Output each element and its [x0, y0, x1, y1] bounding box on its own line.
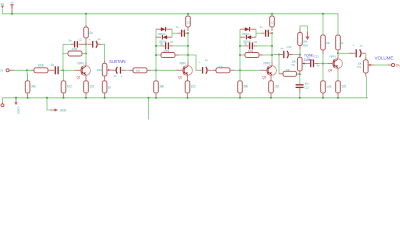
pin D3 anode [240, 28, 245, 30]
svg-text:4n: 4n [281, 46, 284, 50]
pin R5 top [85, 25, 87, 27]
svg-text:12k: 12k [339, 41, 344, 45]
pin R15 right [259, 54, 263, 56]
resistor R17 Q3 emitter [269, 81, 274, 93]
resistor R12 Q2 emitter [185, 81, 190, 93]
wire input to R1 [14, 69, 32, 71]
pin R18 left [279, 73, 283, 75]
wire stage3 bottom res left [240, 54, 245, 56]
pin C3 right [97, 43, 101, 45]
potentiometer P1 SUSTAIN [102, 63, 107, 76]
pin C10 right [288, 54, 293, 56]
pin C13 right [361, 52, 366, 54]
pin D1 cathode [167, 28, 173, 30]
wire stage3 mid cap left [240, 45, 245, 47]
svg-text:C10: C10 [287, 45, 292, 49]
wire diode loop to C8 [256, 32, 262, 34]
wire Q3 collector to tone node [272, 54, 279, 56]
junction R11 on +9V rail [187, 13, 189, 15]
junction R21 on GND rail [322, 97, 324, 99]
svg-text:C11: C11 [304, 86, 309, 90]
pin P2 bottom [299, 71, 301, 74]
pin Q1 base [75, 69, 83, 71]
wire stage3 left vertical [239, 29, 241, 70]
svg-text:100k: 100k [97, 68, 103, 72]
capacitor C12 wiper coupling [310, 60, 312, 67]
junction R23 on GND rail [337, 97, 339, 99]
svg-text:1k: 1k [108, 85, 112, 89]
diode D1 [161, 27, 166, 31]
svg-text:1N914: 1N914 [242, 32, 250, 36]
svg-text:SUSTAIN: SUSTAIN [109, 59, 125, 64]
svg-text:39k: 39k [31, 85, 36, 89]
supply GND symbol SGND [14, 98, 17, 105]
junction Q3 base node [239, 69, 241, 71]
capacitor C8 clip series [265, 30, 267, 37]
wire bias node down to R2 [26, 70, 29, 80]
wire Q4 emitter to R23 [337, 71, 339, 81]
wire feedback bottom right stub [82, 53, 86, 55]
wire stage2 left vertical [155, 29, 157, 70]
pin R18 right [297, 73, 300, 75]
pin Q1 emitter [85, 75, 87, 81]
svg-text:+9: +9 [10, 1, 14, 5]
pin D2 cathode [156, 36, 161, 38]
potentiometer P3 VOLUME [364, 60, 369, 73]
junction stage3 mid left [239, 45, 241, 47]
junction stage2 bottom left [155, 54, 157, 56]
potentiometer P2 TONE [298, 57, 303, 71]
resistor R22 Q4 collector load [336, 35, 341, 50]
pin R3 bottom [63, 93, 65, 98]
resistor R8 Q2 series base [133, 68, 147, 73]
pin C5 right [185, 32, 188, 34]
wire stage2 right vertical [187, 33, 189, 61]
resistor R20 Q4 upper bias [321, 35, 326, 50]
svg-text:102: 102 [274, 84, 279, 88]
svg-text:12k: 12k [88, 31, 93, 35]
resistor R10 feedback [161, 53, 175, 58]
junction stage2 mid left [155, 45, 157, 47]
pin R23 bottom [337, 93, 339, 98]
svg-text:9V: 9V [1, 2, 4, 6]
pin Q4 collector [337, 53, 339, 58]
wire rail to R11 [187, 14, 189, 16]
wire long GND drop mid [148, 98, 150, 120]
pin Q3 collector [271, 62, 273, 66]
pin D3 cathode [251, 28, 257, 30]
pin R13 right [230, 69, 234, 71]
wire stage2 mid cap right [173, 45, 188, 47]
pin R19 top [299, 29, 301, 33]
pin R2 bottom [27, 93, 29, 98]
pin R21 bottom [322, 93, 324, 98]
pin C7 left [199, 69, 202, 71]
junction SGND on rail [15, 97, 17, 99]
resistor R18 tone lowpass [283, 71, 297, 76]
diode D3 [245, 27, 250, 31]
pin P1 wiper [109, 69, 112, 71]
svg-text:102: 102 [67, 85, 72, 89]
wire rail to R16 [271, 14, 273, 16]
wire base node to R9 [155, 70, 157, 81]
pin SUSTAIN pot top [104, 60, 106, 63]
junction R12 on GND rail [186, 97, 188, 99]
capacitor C1 input coupling [54, 66, 56, 74]
svg-text:10k: 10k [218, 65, 223, 69]
svg-text:+: + [89, 38, 91, 42]
pin C12 right [315, 63, 319, 65]
supply +9V symbol P+2 [10, 5, 13, 14]
svg-text:C12: C12 [314, 55, 319, 59]
junction Q4 base node [322, 62, 324, 64]
svg-text:1u: 1u [51, 63, 55, 67]
capacitor C7 coupling polarized [202, 67, 204, 74]
junction R20 on +9V rail [322, 13, 324, 15]
svg-text:+: + [199, 60, 201, 64]
resistor R19 tone shunt [298, 33, 303, 46]
transistor Q1 [81, 66, 91, 76]
svg-text:4u: 4u [317, 64, 320, 68]
pin D1 anode [156, 28, 161, 30]
wire C12 to Q4 base node [319, 63, 328, 65]
wire R20 to Q4 base node [322, 54, 324, 64]
svg-text:39k: 39k [159, 84, 164, 88]
pin R8 right [147, 69, 151, 71]
wire C7 to R13 [211, 69, 216, 71]
svg-text:NPN: NPN [330, 55, 336, 59]
pin C6 right [169, 45, 173, 47]
svg-text:100k: 100k [326, 84, 332, 88]
svg-text:C6: C6 [170, 40, 174, 44]
svg-text:470k: 470k [248, 49, 254, 53]
capacitor C3 coupling polarized [92, 41, 94, 48]
svg-text:R19: R19 [303, 43, 308, 47]
wire stage3 right vertical [271, 33, 273, 61]
junction Q4 collector node [337, 52, 339, 54]
junction tone bottom node [299, 73, 301, 75]
pin R17 bottom [270, 93, 272, 98]
capacitor C2 feedback [74, 41, 76, 47]
pin R8 left [130, 69, 134, 71]
pin R19 bottom [299, 46, 301, 50]
wire wiper to output [374, 64, 389, 66]
wire feedback top left [63, 43, 71, 45]
pin R6 bottom [85, 93, 87, 98]
junction R7 on GND rail [104, 97, 106, 99]
svg-text:OUT: OUT [396, 64, 400, 68]
svg-text:NPN: NPN [264, 61, 271, 65]
resistor R3 Q1 base bias [61, 81, 66, 93]
pin GND arrow [50, 109, 55, 111]
pin C9 right [253, 45, 257, 47]
wiper arrow P3 [368, 64, 370, 66]
wire rail to R5 [85, 14, 87, 25]
pin D4 cathode [240, 36, 245, 38]
wire tone split down [278, 55, 280, 74]
junction input bias node [26, 69, 28, 71]
resistor R7 pot lower [102, 81, 107, 93]
wire C10 to tone top node [293, 54, 300, 56]
pin output [388, 64, 391, 66]
junction R3 on GND rail [62, 97, 64, 99]
wire tone bottom down [299, 74, 301, 84]
pin P2 top [299, 55, 301, 58]
junction R6 on GND rail [85, 97, 87, 99]
pin R20 bottom [322, 50, 324, 54]
wire stage2 diode loop right vertical [171, 29, 173, 37]
wire collector node to C13 [338, 52, 349, 54]
resistor R9 Q2 base bias [154, 81, 159, 93]
wire stage2 bottom res left [156, 54, 161, 56]
svg-text:1u: 1u [205, 58, 208, 62]
resistor R23 Q4 emitter [336, 81, 341, 93]
wire +9V rail left stub up [2, 9, 4, 15]
pin P3 wiper [371, 64, 374, 66]
wire R8 to Q2 base node [151, 69, 176, 71]
pin Q2 base [176, 69, 184, 71]
ground arrow symbol [55, 108, 59, 111]
wire feedback bottom left stub [63, 53, 68, 55]
pin C2 left [71, 43, 74, 45]
svg-text:Q3: Q3 [262, 75, 266, 79]
svg-text:470k: 470k [72, 47, 78, 51]
svg-text:1u: 1u [97, 37, 100, 41]
wire rail corner to R22 [337, 13, 339, 35]
pin C8 right [269, 32, 272, 34]
pin C13 left [349, 52, 355, 54]
junction C11 on GND rail [299, 97, 301, 99]
resistor R16 collector load [270, 16, 275, 27]
pin Q3 base [261, 69, 269, 71]
pin Q1 collector [85, 62, 87, 66]
junction R2 on GND rail [27, 97, 29, 99]
wiper arrow P2 [302, 63, 304, 65]
svg-text:12k: 12k [271, 20, 276, 24]
pin GND reference [2, 102, 4, 104]
port input pad circle [6, 69, 9, 72]
svg-text:12k: 12k [187, 20, 192, 24]
pin R11 bottom [187, 27, 189, 31]
wire Q4 base node down to R21 [322, 64, 324, 81]
resistor R4 feedback [68, 51, 82, 56]
svg-text:+: + [353, 43, 355, 47]
pin C8 left [262, 32, 265, 34]
pin R14 bottom [239, 93, 241, 98]
resistor R6 Q1 emitter [84, 81, 89, 93]
diode D4 [246, 35, 251, 39]
svg-text:IN: IN [0, 69, 3, 73]
ground arrow symbol tone [306, 37, 310, 41]
wire Q2 collector jog to C7 [188, 55, 199, 70]
wire stage3 diode loop right vertical [255, 29, 257, 37]
pin R13 left [213, 69, 217, 71]
junction Q2 base node [155, 69, 157, 71]
resistor R21 Q4 lower bias [321, 81, 326, 93]
capacitor C11 tone to ground [296, 84, 304, 86]
svg-text:NPN: NPN [180, 61, 187, 65]
capacitor C6 feedback [165, 42, 167, 49]
junction R9 on GND rail [155, 97, 157, 99]
wire diode loop to C5 [172, 32, 178, 34]
pin C10 left [279, 54, 283, 56]
wire C13 corner to P3 [365, 53, 367, 57]
wire stage3 mid cap right [257, 45, 272, 47]
junction R5 on +9V rail [85, 13, 87, 15]
pin C2 right [79, 43, 86, 45]
port output pad circle [391, 63, 394, 66]
svg-text:1u: 1u [176, 25, 179, 29]
wire C4 to R8 [126, 69, 130, 71]
svg-text:10k: 10k [136, 68, 141, 72]
resistor R13 Q3 series base [216, 68, 230, 73]
pin C6 left [161, 45, 165, 47]
wire C1 to base node [60, 69, 75, 71]
svg-text:GND1: GND1 [16, 107, 20, 115]
capacitor C13 output polarized [355, 49, 357, 57]
junction Q1 collector node [85, 43, 87, 45]
svg-text:Q2: Q2 [178, 75, 182, 79]
svg-text:1N914: 1N914 [158, 32, 166, 36]
pin D4 anode [251, 36, 256, 38]
wire collector down to Q1 [85, 54, 87, 62]
svg-text:470k: 470k [324, 41, 330, 45]
junction tone split [278, 53, 280, 55]
junction stage2 mid right [187, 45, 189, 47]
svg-text:2u: 2u [113, 74, 116, 78]
transistor Q3 [267, 66, 277, 76]
svg-text:P3: P3 [357, 65, 361, 69]
pin Q4 emitter [337, 68, 339, 70]
svg-text:Q4: Q4 [328, 69, 332, 73]
pin C4 right [122, 69, 126, 71]
wire top +9V rail [3, 13, 339, 15]
wire C11 to GND rail [299, 93, 301, 98]
junction tone top node [299, 53, 301, 55]
junction R17 on GND rail [270, 97, 272, 99]
wire GND rail left drop [2, 98, 4, 103]
transistor Q2 [183, 66, 193, 76]
pin C3 left [88, 43, 92, 45]
wire stage2 bottom res right [179, 54, 188, 56]
diode D2 [162, 35, 167, 39]
svg-text:C6: C6 [254, 40, 258, 44]
svg-text:P2: P2 [292, 63, 296, 67]
pin input [9, 69, 13, 71]
wire R19 to tone top node [299, 50, 301, 55]
pin Q2 emitter [187, 75, 189, 81]
svg-text:102: 102 [89, 85, 94, 89]
wire base node down to R3 [63, 70, 65, 81]
wire feedback right vertical [85, 44, 87, 53]
resistor R5 Q1 collector load [84, 27, 89, 38]
junction stage3 mid right [271, 45, 273, 47]
junction GND stub [46, 97, 48, 99]
capacitor C5 clip series [181, 30, 183, 37]
capacitor C4 polarized [116, 67, 117, 74]
svg-text:470k: 470k [164, 49, 170, 53]
wire wiper to C4 [113, 69, 117, 71]
pin R9 bottom [155, 93, 157, 98]
svg-text:102: 102 [191, 84, 196, 88]
wire GND stub to arrow [47, 98, 50, 110]
junction feedback box bottom right [85, 52, 87, 54]
junction Q1 base node [62, 69, 64, 71]
wire stage3 bottom res right [263, 54, 272, 56]
junction R14 on GND rail [239, 97, 241, 99]
pin R5 bottom [85, 38, 87, 44]
svg-text:5p: 5p [69, 39, 72, 43]
resistor R2 input pulldown [25, 81, 30, 93]
pin P1 bottom [104, 76, 106, 81]
supply +9V flag P+1 [1, 6, 4, 9]
pin Q3 emitter [270, 75, 272, 81]
svg-text:GND: GND [60, 109, 67, 113]
svg-text:102: 102 [341, 84, 346, 88]
pin C11 bottom [299, 88, 301, 93]
pin ground arrow tone [307, 32, 309, 37]
wire P3 bottom to GND rail [366, 77, 368, 99]
capacitor C9 feedback [249, 42, 251, 49]
pin R1 right [48, 69, 54, 71]
wire base node up to feedback box [62, 44, 64, 70]
junction +9V symbol on rail [11, 13, 13, 15]
pin C7 right [207, 69, 211, 71]
junction stage3 bottom left [239, 54, 241, 56]
wire R13 to Q3 base node [234, 69, 261, 71]
svg-text:22k: 22k [286, 68, 291, 72]
svg-text:VOLUME: VOLUME [375, 56, 394, 61]
resistor R1 series input [34, 68, 48, 73]
pin P3 bottom [365, 73, 367, 77]
pin R22 bottom [337, 50, 339, 53]
pin P2 wiper [305, 63, 308, 65]
transistor Q4 [333, 59, 343, 69]
pin Q2 collector [187, 62, 189, 66]
wire C3 to sustain pot [102, 44, 105, 60]
junction stage2 collector node top [187, 32, 189, 34]
resistor R11 collector load [186, 16, 191, 27]
wire R19 jog to ground arrow [300, 26, 308, 32]
resistor R14 Q3 base bias [238, 81, 243, 93]
pin C9 left [245, 45, 249, 47]
pin R16 bottom [271, 27, 273, 31]
pin R12 bottom [187, 93, 189, 98]
junction stage3 bottom right [271, 54, 273, 56]
svg-text:NPN: NPN [78, 61, 85, 65]
port GND pad circle [1, 104, 4, 107]
wire P2 wiper to C12 [308, 63, 310, 65]
wire rail to R20 [322, 14, 324, 35]
wire stage2 mid cap left [156, 45, 161, 47]
svg-text:Q1: Q1 [77, 75, 81, 79]
wire base node to R14 [239, 70, 241, 81]
pin R10 right [175, 54, 179, 56]
svg-text:100k: 100k [38, 63, 45, 67]
pin Q4 base [328, 63, 335, 65]
svg-text:C2: C2 [78, 38, 82, 42]
svg-text:1u: 1u [260, 25, 263, 29]
pin D2 anode [167, 36, 172, 38]
pin R1 left [31, 69, 34, 71]
junction R16 on +9V rail [271, 13, 273, 15]
wiper arrow P1 [107, 69, 109, 71]
pin C5 left [178, 32, 181, 34]
junction stage2 bottom right [187, 54, 189, 56]
pin R7 bottom [104, 93, 106, 98]
svg-text:39k: 39k [243, 84, 248, 88]
svg-text:1u: 1u [359, 43, 362, 47]
